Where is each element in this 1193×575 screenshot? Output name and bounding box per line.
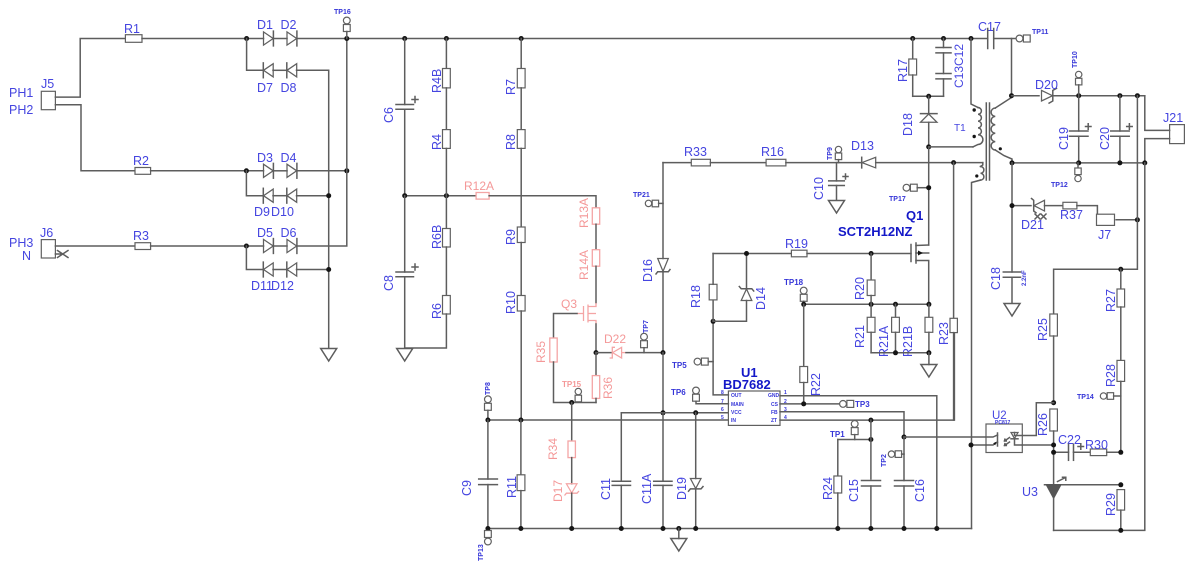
resistor R36: [592, 353, 615, 399]
node sec bottom R29: [1118, 528, 1123, 533]
svg-text:J5: J5: [41, 77, 54, 91]
node divider C22: [1118, 450, 1123, 455]
svg-text:D22: D22: [604, 332, 626, 346]
wire R18 D14 bottom: [713, 301, 746, 322]
wire J6 to R3: [55, 245, 135, 247]
node secondary top: [1009, 93, 1014, 98]
wire Q3 source to D22 node: [595, 324, 597, 353]
svg-text:D2: D2: [281, 18, 297, 32]
svg-text:D4: D4: [281, 151, 297, 165]
wire R16 to D13: [786, 162, 862, 164]
wire VCC line: [621, 412, 728, 414]
wire R30 to divider: [1107, 451, 1121, 453]
svg-text:TP5: TP5: [672, 361, 687, 370]
svg-text:SCT2H12NZ: SCT2H12NZ: [838, 224, 912, 239]
node bus C13: [941, 36, 946, 41]
node sense Q1: [926, 302, 931, 307]
test point TP1: [830, 421, 858, 440]
svg-text:GND: GND: [768, 393, 780, 399]
capacitor C13: [936, 39, 966, 89]
svg-text:TP15: TP15: [562, 380, 582, 389]
test point TP21: [633, 192, 663, 207]
wire J7 to out feed: [1116, 219, 1137, 221]
wire R1 to bridge node A: [142, 38, 264, 40]
node gnd R11: [518, 526, 523, 531]
resistor R30: [1085, 438, 1108, 456]
svg-text:R36: R36: [601, 377, 615, 399]
wire VH line: [488, 419, 729, 421]
svg-text:PH1: PH1: [9, 86, 33, 100]
node phase1: [244, 36, 249, 41]
diode D7: [257, 63, 273, 95]
diode D1: [257, 18, 273, 46]
connector J6: [9, 226, 68, 263]
svg-text:R7: R7: [504, 79, 518, 95]
wire ZT pin line: [780, 333, 954, 421]
svg-text:TP9: TP9: [827, 147, 834, 160]
wire U3 ref to divider: [1062, 484, 1121, 486]
resistor R20: [853, 254, 875, 305]
wire TP18 column to R22: [803, 304, 805, 366]
svg-text:C15: C15: [847, 479, 861, 502]
wire output feed column: [1054, 96, 1138, 314]
node gnd C15: [868, 526, 873, 531]
node D14 top: [744, 251, 749, 256]
capacitor C18: [989, 206, 1028, 303]
resistor R16: [761, 145, 786, 166]
svg-text:TP2: TP2: [881, 454, 888, 467]
svg-text:D18: D18: [901, 113, 915, 136]
ground bridge negative: [321, 349, 337, 362]
IC U1 BD7682: [721, 365, 787, 425]
node D10 neg: [326, 193, 331, 198]
wire R11 to gnd rail: [520, 491, 522, 529]
svg-text:R22: R22: [809, 373, 823, 396]
wire R33-R16: [710, 162, 766, 164]
svg-text:ZT: ZT: [771, 418, 777, 424]
transformer T1: [954, 39, 1012, 529]
test point TP18: [784, 278, 807, 304]
resistor R14A: [577, 250, 600, 280]
resistor R23: [937, 163, 957, 421]
wire R19 to Q1 gate: [807, 253, 911, 255]
wire D8 to neg rail: [297, 70, 329, 348]
svg-text:R9: R9: [504, 229, 518, 245]
svg-text:TP21: TP21: [633, 192, 650, 199]
svg-text:TP14: TP14: [1077, 394, 1094, 401]
capacitor C9: [460, 420, 497, 529]
wire VCC charge line R33 R16: [663, 162, 691, 164]
diode D3: [257, 151, 273, 178]
svg-text:PH3: PH3: [9, 236, 33, 250]
diode D2: [281, 18, 297, 46]
wire R3 to phase3: [151, 245, 264, 247]
diode D12: [271, 262, 297, 293]
test point TP13: [478, 531, 491, 562]
svg-text:5: 5: [721, 415, 724, 421]
svg-text:R2: R2: [133, 154, 149, 168]
svg-text:R34: R34: [546, 438, 560, 460]
svg-text:R6B: R6B: [430, 225, 444, 249]
node C18 D21: [1010, 203, 1015, 208]
wire R25 node to U2 collector... LED anode: [1022, 403, 1053, 436]
wire D13 to aux node: [876, 162, 983, 164]
svg-text:D10: D10: [271, 205, 294, 219]
wire secondary output rail: [1012, 95, 1040, 97]
test point TP6: [671, 387, 728, 404]
resistor R7: [504, 39, 525, 96]
node bus R17: [910, 36, 915, 41]
wire R13A-R14A: [595, 224, 597, 250]
wire R37 to J7: [1077, 206, 1098, 215]
wire D16 to D22 node: [662, 272, 664, 353]
wire D4 to pos vertical: [297, 170, 347, 172]
resistor R2: [133, 154, 151, 174]
wire R6 to ground: [405, 314, 447, 348]
node bus R7: [519, 36, 524, 41]
resistor R27: [1104, 269, 1125, 360]
node out C20: [1117, 93, 1122, 98]
zener D19: [675, 413, 703, 529]
svg-text:2.2nF: 2.2nF: [1022, 270, 1028, 286]
connector J7: [1097, 214, 1115, 242]
svg-text:R26: R26: [1036, 413, 1050, 436]
node out C19: [1076, 93, 1081, 98]
diode D4: [281, 151, 297, 178]
wire J21 pin1: [1145, 96, 1170, 131]
node J7 feed: [1135, 217, 1140, 222]
wire U2 cathode to fb node: [1022, 444, 1053, 446]
svg-text:D5: D5: [257, 226, 273, 240]
svg-text:R12A: R12A: [464, 179, 494, 193]
svg-text:OUT: OUT: [731, 393, 742, 399]
diode D13: [851, 139, 876, 168]
zener D22: [596, 332, 626, 358]
svg-text:C17: C17: [978, 20, 1001, 34]
svg-text:R27: R27: [1104, 289, 1118, 312]
svg-text:R28: R28: [1104, 364, 1118, 387]
wire Q3 gate to R35: [554, 314, 578, 339]
svg-text:R6: R6: [430, 303, 444, 319]
svg-text:D16: D16: [641, 259, 655, 282]
svg-text:R11: R11: [505, 476, 519, 498]
svg-text:R14A: R14A: [577, 250, 591, 280]
svg-text:R24: R24: [821, 477, 835, 500]
wire R4B-R4: [445, 88, 447, 130]
wire R22 to CS pin: [803, 383, 805, 404]
svg-text:C9: C9: [460, 480, 474, 496]
wire D6 to pos vertical: [297, 39, 347, 247]
node bus TP16: [344, 36, 349, 41]
node gnd R24: [835, 526, 840, 531]
wire gate drive line: [713, 253, 791, 255]
node feed R27: [1118, 267, 1123, 272]
svg-text:R19: R19: [785, 237, 808, 251]
node gnd D17: [569, 526, 574, 531]
test point TP14: [1077, 393, 1121, 401]
wire FB line to U2: [904, 436, 986, 438]
node sgnd J21: [1142, 160, 1147, 165]
node sgnd C20: [1117, 160, 1122, 165]
node gnd C9: [485, 526, 490, 531]
resistor R1: [124, 22, 142, 42]
node sense TP18: [801, 302, 806, 307]
wire D12 to neg rail: [297, 269, 329, 271]
wire D22 to D16 column: [626, 352, 663, 354]
wire snubber bottom rail: [913, 95, 944, 97]
diode D6: [281, 226, 297, 253]
capacitor C8: [382, 196, 418, 348]
svg-text:C19: C19: [1057, 127, 1071, 150]
svg-text:U3: U3: [1022, 485, 1038, 499]
svg-text:R23: R23: [937, 322, 951, 345]
svg-text:TP11: TP11: [1032, 29, 1048, 36]
svg-text:C22: C22: [1058, 433, 1081, 447]
wire R36 to TP15 line: [595, 398, 597, 402]
svg-text:D12: D12: [271, 279, 294, 293]
svg-text:C18: C18: [989, 267, 1003, 290]
svg-text:D14: D14: [754, 287, 768, 310]
node drain junction: [926, 144, 931, 149]
node bus T1 primary: [969, 36, 974, 41]
wire D20 to output: [1053, 95, 1145, 97]
test point TP16: [334, 9, 351, 39]
zener D17: [551, 458, 579, 529]
ground sense rail: [921, 353, 937, 377]
svg-text:C6: C6: [382, 107, 396, 123]
svg-text:TP7: TP7: [643, 320, 650, 333]
svg-text:R16: R16: [761, 145, 784, 159]
wire drain to primary bottom: [929, 146, 973, 148]
svg-text:R35: R35: [534, 341, 548, 363]
svg-text:D13: D13: [851, 139, 874, 153]
svg-text:TP8: TP8: [485, 382, 492, 395]
node gnd stub: [676, 526, 681, 531]
svg-text:TP17: TP17: [889, 196, 906, 203]
ground primary rail: [671, 529, 687, 552]
svg-text:FB: FB: [771, 410, 778, 416]
diode D9: [254, 188, 273, 219]
wire U2 emitter to aux gnd: [971, 444, 986, 446]
wire phase2 down to D9 row: [246, 171, 263, 196]
resistor R37: [1060, 202, 1083, 222]
node D4 output: [344, 168, 349, 173]
diode D8: [281, 63, 297, 95]
wire R10 to VH line: [520, 311, 522, 420]
svg-text:CS: CS: [771, 402, 779, 408]
wire secondary gnd rail: [1012, 162, 1145, 164]
resistor R17: [896, 39, 917, 97]
node gnd C11: [619, 526, 624, 531]
node emitter gnd: [969, 443, 974, 448]
diode D11: [251, 262, 273, 293]
node R26 U3: [1051, 443, 1056, 448]
capacitor C22: [1054, 433, 1091, 460]
svg-text:D3: D3: [257, 151, 273, 165]
node phase3: [244, 244, 249, 249]
svg-text:C11A: C11A: [640, 473, 654, 504]
node gnd C11A: [661, 526, 666, 531]
svg-text:Q3: Q3: [561, 297, 577, 311]
svg-text:D9: D9: [254, 205, 270, 219]
optocoupler U2 PC817: [986, 410, 1022, 453]
wire D21 to R37: [1045, 205, 1063, 207]
wire D9-D10: [273, 195, 287, 197]
svg-text:R20: R20: [853, 277, 867, 300]
svg-text:IN: IN: [731, 418, 736, 424]
transistor Q3: [561, 297, 596, 324]
node bus C6: [402, 36, 407, 41]
resistor R28: [1104, 360, 1125, 452]
node snubber D18: [926, 94, 931, 99]
svg-text:Q1: Q1: [906, 208, 923, 223]
svg-text:TP12: TP12: [1051, 182, 1068, 189]
diode D18: [901, 96, 937, 147]
node VH R11: [518, 418, 523, 423]
wire D16 column: [662, 163, 664, 259]
svg-text:D19: D19: [675, 477, 689, 500]
svg-text:C13C12: C13C12: [952, 44, 966, 88]
node phase2: [244, 168, 249, 173]
svg-text:R4B: R4B: [430, 69, 444, 93]
capacitor C10: [812, 163, 848, 200]
resistor R22: [800, 367, 823, 397]
node D12 neg: [326, 267, 331, 272]
ground C10: [829, 201, 845, 214]
svg-text:R18: R18: [689, 285, 703, 308]
shunt regulator U3: [1022, 477, 1066, 530]
node R34 top: [569, 400, 574, 405]
connector J21: [1163, 111, 1184, 144]
node gnd D19: [693, 526, 698, 531]
svg-text:R17: R17: [896, 59, 910, 82]
resistor R21A: [877, 304, 899, 357]
node R25 R26: [1051, 400, 1056, 405]
svg-text:J7: J7: [1098, 228, 1111, 242]
wire D5-D6: [273, 245, 287, 247]
svg-text:D11: D11: [251, 279, 273, 293]
wire secondary bottom rail: [1054, 163, 1145, 531]
resistor R21B: [901, 304, 933, 357]
transistor Q1: [838, 208, 929, 304]
node out feed: [1135, 93, 1140, 98]
capacitor C16: [895, 437, 928, 529]
node Q3 source: [594, 350, 599, 355]
wire R9-R10: [520, 243, 522, 296]
wire sense gnd rail: [871, 352, 929, 354]
ground C18: [1004, 304, 1020, 317]
wire J5 pin2 to R2: [55, 105, 135, 171]
svg-text:TP18: TP18: [784, 278, 804, 287]
wire D16 column to VCC line: [662, 353, 664, 413]
svg-text:PH2: PH2: [9, 103, 33, 117]
svg-text:D17: D17: [551, 480, 565, 502]
svg-text:MAIN: MAIN: [731, 402, 744, 408]
node VCC C11A: [661, 410, 666, 415]
zener D14: [739, 254, 768, 311]
node R18 D14 bottom: [711, 319, 716, 324]
diode D10: [271, 188, 297, 219]
resistor R10: [504, 291, 525, 314]
wire CS pin line: [780, 403, 847, 405]
wire CS sense rail: [804, 303, 929, 305]
resistor R8: [504, 130, 525, 150]
wire R14A to Q3 drain: [595, 266, 597, 303]
wire drain column: [928, 147, 930, 245]
svg-text:VCC: VCC: [731, 410, 742, 416]
resistor R12A: [464, 179, 494, 199]
node VH TP8: [485, 418, 490, 423]
test point TP5: [672, 358, 713, 370]
svg-text:D1: D1: [257, 18, 273, 32]
connector J5: [9, 77, 55, 117]
wire D2 to bus: [297, 38, 405, 40]
resistor R4: [430, 130, 450, 150]
svg-text:T1: T1: [954, 123, 966, 134]
svg-text:PC817: PC817: [995, 420, 1011, 426]
resistor R35: [534, 338, 557, 363]
resistor R3: [133, 229, 151, 250]
svg-text:N: N: [22, 249, 31, 263]
wire R7-R8: [520, 88, 522, 130]
wire D10 to neg rail: [297, 195, 329, 197]
svg-text:R30: R30: [1085, 438, 1108, 452]
resistor R19: [785, 237, 808, 257]
node sense R21A: [893, 302, 898, 307]
svg-text:C16: C16: [913, 479, 927, 502]
svg-text:R10: R10: [504, 291, 518, 314]
node D22 junction: [661, 350, 666, 355]
capacitor C17: [978, 20, 1016, 49]
resistor R4B: [430, 39, 450, 94]
svg-text:D21: D21: [1021, 218, 1044, 232]
node sgnd C19: [1076, 160, 1081, 165]
node gnd U1: [934, 526, 939, 531]
svg-text:R1: R1: [124, 22, 140, 36]
node C15 top: [868, 437, 873, 442]
wire GND pin to gnd rail: [780, 396, 937, 529]
capacitor C6: [382, 39, 418, 196]
node sgnd D21 column: [1010, 160, 1015, 165]
wire TP15 line: [572, 402, 596, 404]
svg-text:6: 6: [721, 407, 724, 413]
capacitor C20: [1098, 96, 1132, 163]
svg-text:R3: R3: [133, 229, 149, 243]
svg-text:BD7682: BD7682: [723, 377, 771, 392]
wire C17 down to secondary top: [1011, 39, 1013, 96]
node mid rail R4: [444, 193, 449, 198]
node gate R20: [869, 251, 874, 256]
resistor R33: [684, 145, 710, 166]
node CS R22: [801, 401, 806, 406]
test point TP15: [562, 380, 582, 402]
svg-text:R25: R25: [1036, 318, 1050, 341]
node aux R23: [951, 160, 956, 165]
resistor R24: [821, 440, 842, 529]
diode D20: [1035, 78, 1058, 103]
wire J21 pin2 to gnd rail: [1145, 139, 1170, 163]
wire R6B-R6: [445, 247, 447, 296]
capacitor C19: [1057, 96, 1091, 163]
capacitor C12: [936, 74, 951, 97]
wire R4 to mid rail: [445, 148, 447, 195]
svg-text:TP10: TP10: [1072, 51, 1079, 68]
svg-text:C20: C20: [1098, 127, 1112, 150]
svg-text:R13A: R13A: [577, 198, 591, 228]
svg-text:TP6: TP6: [671, 388, 686, 397]
wire sgnd down to D21: [1012, 163, 1031, 206]
svg-text:D20: D20: [1035, 78, 1058, 92]
